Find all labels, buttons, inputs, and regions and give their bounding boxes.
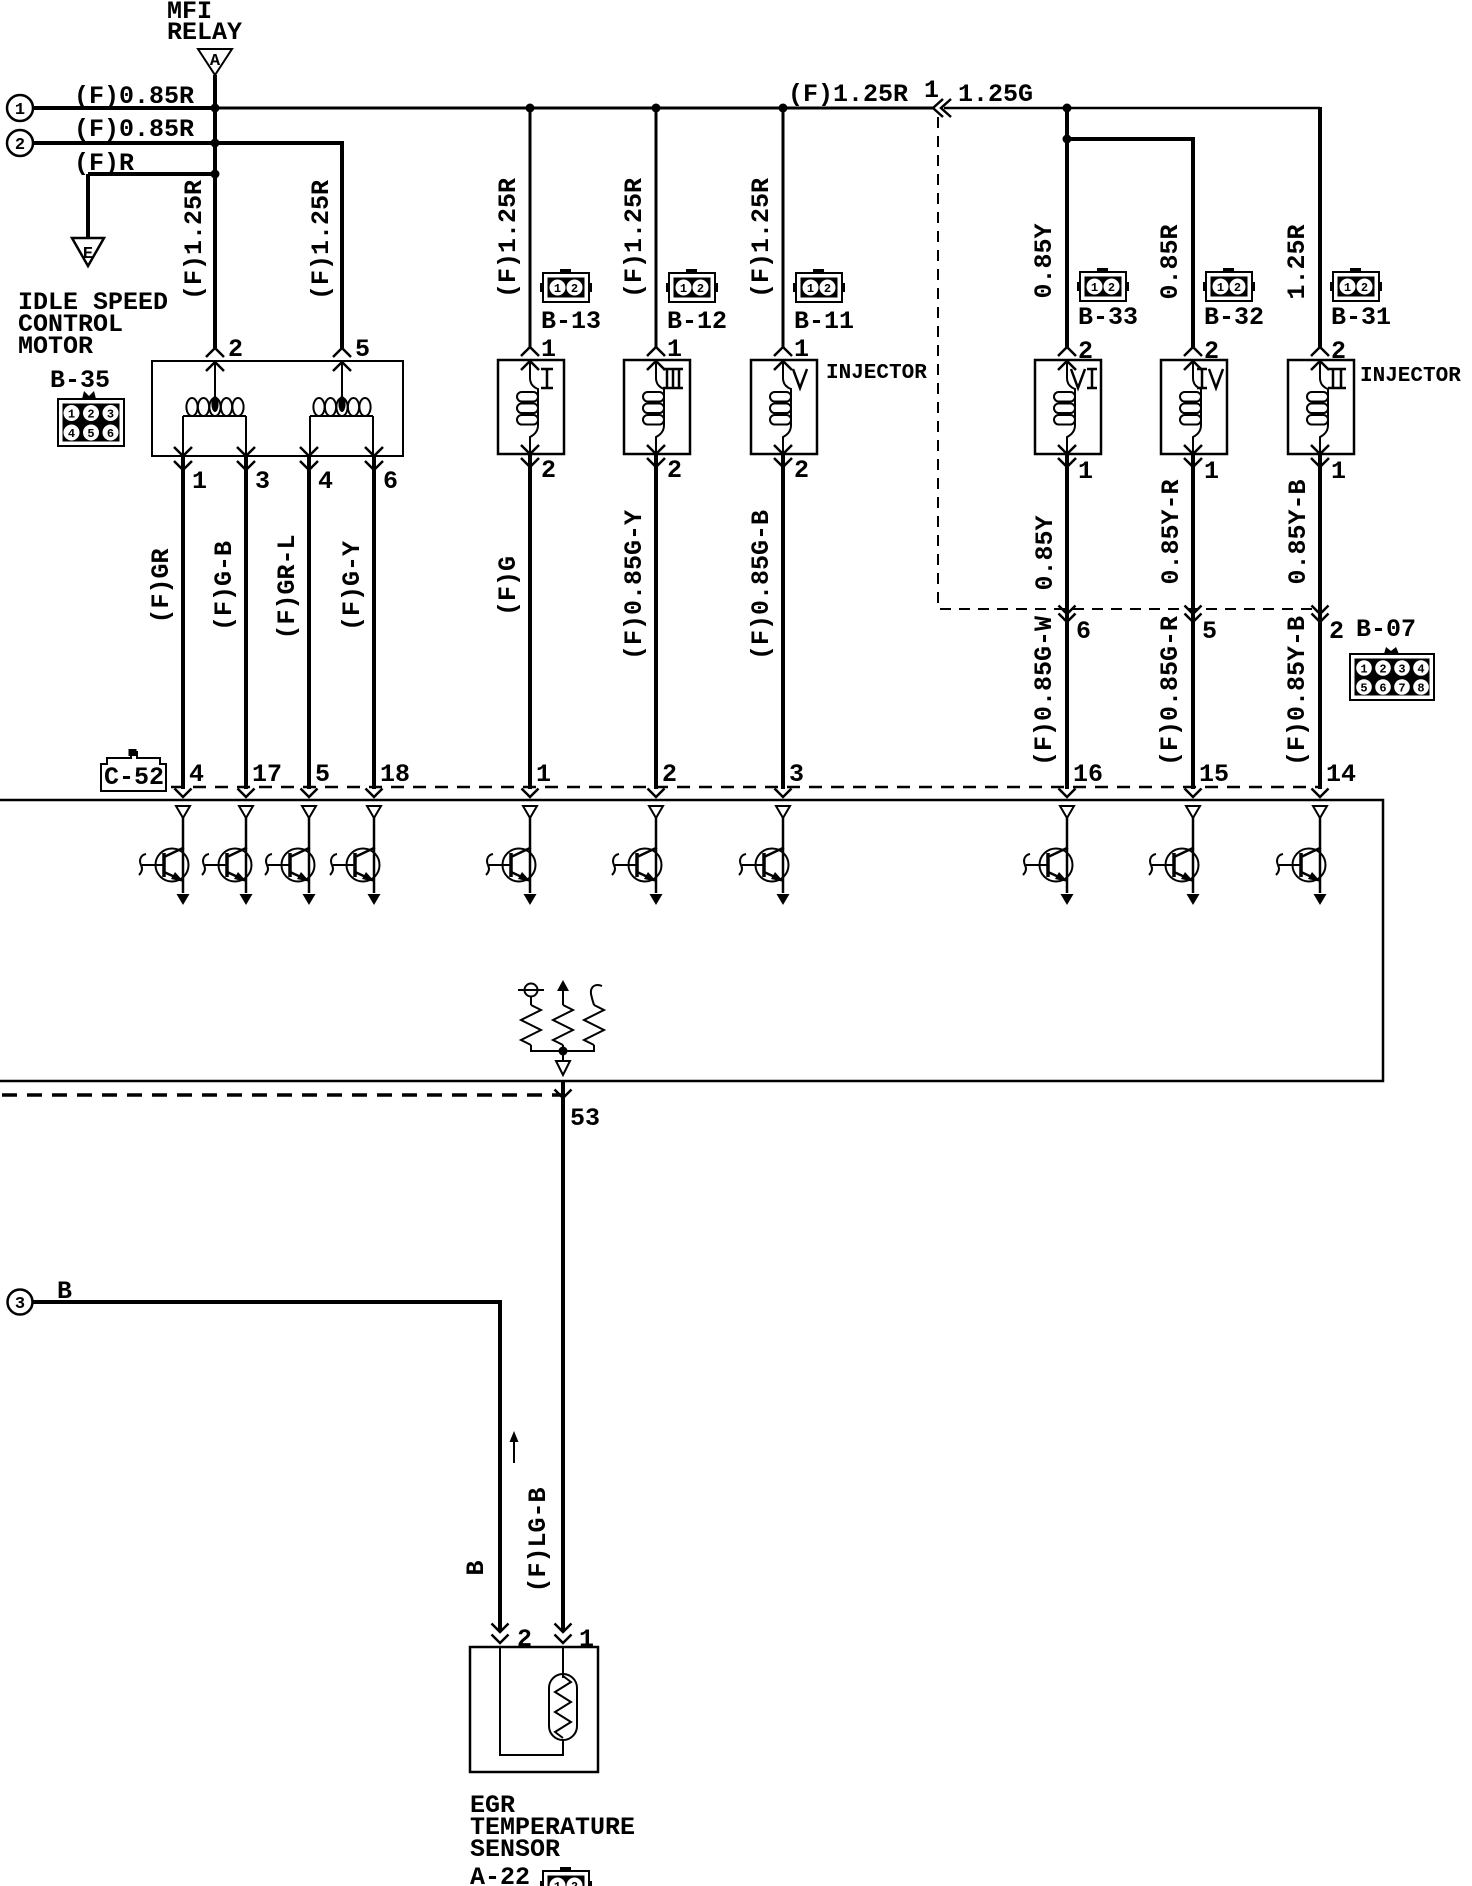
svg-text:0.85R: 0.85R <box>1156 224 1185 299</box>
wire: injector I feed drop <box>529 108 532 347</box>
svg-text:B-13: B-13 <box>541 307 601 336</box>
ECU pin 14 entry arrow <box>1312 789 1329 798</box>
transistor: ECU driver pin 1 <box>486 806 537 905</box>
svg-text:4: 4 <box>189 760 204 789</box>
svg-text:5: 5 <box>355 335 370 364</box>
svg-text:2: 2 <box>517 1625 532 1654</box>
connector icon: B-31 2-pin <box>1330 268 1382 301</box>
svg-text:2: 2 <box>1331 337 1346 366</box>
svg-text:14: 14 <box>1326 760 1356 789</box>
wire: EGR internal pin 2 <box>500 1647 563 1755</box>
svg-text:B-32: B-32 <box>1204 303 1264 332</box>
svg-text:SENSOR: SENSOR <box>470 1835 560 1864</box>
label: injector III numeral <box>663 369 683 388</box>
node: circled terminal 1 <box>7 95 33 121</box>
label: injector VI numeral <box>1071 369 1097 388</box>
svg-text:(F)1.25R: (F)1.25R <box>788 80 908 109</box>
node: junction relay/line1 <box>211 104 220 113</box>
wire: dashed harness boundary from joint 1 to B-07 row <box>938 117 1320 609</box>
svg-text:(F)GR-L: (F)GR-L <box>273 534 302 639</box>
connector icon: B-12 2-pin <box>666 269 718 302</box>
svg-text:1: 1 <box>1331 457 1346 486</box>
svg-text:(F)1.25R: (F)1.25R <box>494 178 523 298</box>
ECU pin 5 entry arrow <box>301 789 318 798</box>
wire: EGR internal pin 1 <box>562 1647 564 1678</box>
transistor: ECU driver pin 15 <box>1149 806 1200 905</box>
wire: dashed ECU connector row <box>171 786 1320 789</box>
svg-text:2: 2 <box>87 408 94 422</box>
svg-text:17: 17 <box>252 760 282 789</box>
svg-text:INJECTOR: INJECTOR <box>826 362 927 385</box>
svg-text:15: 15 <box>1199 760 1229 789</box>
svg-text:B-07: B-07 <box>1356 615 1416 644</box>
svg-text:18: 18 <box>380 760 410 789</box>
wire: (F)R ground lead <box>88 172 215 176</box>
wire: injector VI feed drop <box>1065 108 1069 347</box>
connector icon: B-33 2-pin <box>1077 268 1129 301</box>
svg-text:(F)0.85G-Y: (F)0.85G-Y <box>620 510 649 660</box>
component: injector V box <box>751 347 817 467</box>
svg-text:8: 8 <box>1417 682 1424 696</box>
svg-text:2: 2 <box>541 456 556 485</box>
node: circled terminal 3 <box>8 1290 33 1315</box>
connector: inline joint 1 chevrons <box>933 99 951 117</box>
pin 2 entry arrows motor <box>206 348 224 371</box>
component: ECU box <box>0 800 1383 1081</box>
label: injector IV numeral <box>1197 369 1223 388</box>
resistor: pull-up R2 with arrow tap <box>553 980 573 1051</box>
component: injector III box <box>624 347 690 467</box>
connector icon: B-11 2-pin <box>793 269 845 302</box>
wire: injector V to ECU <box>781 455 785 789</box>
svg-text:1.25G: 1.25G <box>958 80 1033 109</box>
svg-text:3: 3 <box>789 760 804 789</box>
svg-text:(F)1.25R: (F)1.25R <box>747 178 776 298</box>
pin 1 entry arrows EGR <box>555 1624 572 1633</box>
component: injector IV box <box>1161 347 1227 467</box>
svg-text:0.85Y-B: 0.85Y-B <box>1284 479 1313 584</box>
svg-text:(F)1.25R: (F)1.25R <box>307 180 336 300</box>
label: injector II numeral <box>1328 369 1346 388</box>
coil: motor winding at pin 5 <box>310 361 373 456</box>
coil: motor winding at pin 2 <box>183 361 246 456</box>
wire: ground drop to E <box>86 174 90 238</box>
svg-text:1: 1 <box>1078 457 1093 486</box>
label: injector I numeral <box>541 369 553 388</box>
svg-text:6: 6 <box>383 467 398 496</box>
svg-text:2: 2 <box>794 456 809 485</box>
pin 5 entry arrows motor <box>333 348 351 371</box>
node: circled terminal 2 <box>7 130 33 156</box>
component: injector VI box <box>1035 347 1101 467</box>
node: resistor junction <box>559 1047 568 1056</box>
transistor: ECU driver pin 17 <box>202 806 253 905</box>
svg-text:(F)G-B: (F)G-B <box>210 541 239 631</box>
ECU pin 15 entry arrow <box>1185 789 1202 798</box>
wire: injector III to ECU <box>654 455 658 789</box>
svg-text:4: 4 <box>68 427 75 441</box>
label: injector V numeral <box>793 369 807 388</box>
svg-text:1: 1 <box>541 335 556 364</box>
svg-text:C-52: C-52 <box>104 763 164 792</box>
ECU pin 53 exit arrow <box>555 1090 572 1099</box>
svg-text:2: 2 <box>667 456 682 485</box>
wire: pin 53 to EGR sensor <box>561 1082 565 1631</box>
svg-text:MOTOR: MOTOR <box>18 332 93 361</box>
node: junction line1/injector V <box>779 104 788 113</box>
ECU pin 2 entry arrow <box>648 789 665 798</box>
svg-text:6: 6 <box>1379 682 1386 696</box>
pin 1 exit arrows motor <box>174 447 192 470</box>
arrow: flow direction marker <box>510 1431 519 1463</box>
svg-text:RELAY: RELAY <box>167 18 242 47</box>
svg-text:(F)1.25R: (F)1.25R <box>180 180 209 300</box>
connector B-07 crossing pin 2 <box>1312 606 1329 615</box>
transistor: ECU driver pin 4 <box>139 806 190 905</box>
svg-text:4: 4 <box>1417 663 1424 677</box>
transistor: ECU driver pin 5 <box>265 806 316 905</box>
svg-text:1: 1 <box>924 76 939 105</box>
svg-text:3: 3 <box>255 467 270 496</box>
svg-text:0.85Y-R: 0.85Y-R <box>1157 479 1186 584</box>
node: junction 1.25G/injector VI <box>1063 104 1072 113</box>
wire: MFI relay drop to motor pin 2 <box>213 75 217 348</box>
svg-text:B-11: B-11 <box>794 307 854 336</box>
pin 3 exit arrows motor <box>237 447 255 470</box>
resistor: pull-up R1 with circle tap <box>518 984 563 1052</box>
svg-text:1: 1 <box>579 1625 594 1654</box>
transistor: ECU driver pin 14 <box>1276 806 1327 905</box>
ECU pin 1 entry arrow <box>522 789 539 798</box>
wire: injector II to ECU <box>1318 455 1322 789</box>
wire: motor pin 3 to ECU <box>244 457 248 789</box>
connector: MFI relay terminal A triangle <box>198 49 232 75</box>
ground: E triangle <box>72 238 104 266</box>
wire: 1.25G segment after inline connector 1 <box>944 107 1320 110</box>
node: junction line1/injector I <box>526 104 535 113</box>
wire: injector II drop from 1.25G line <box>1318 107 1322 347</box>
component: injector II box <box>1288 347 1354 467</box>
connector B-07 crossing pin 6 <box>1059 606 1076 615</box>
connector icon: B-35 6-pin <box>58 391 124 446</box>
svg-text:(F)LG-B: (F)LG-B <box>524 1487 553 1592</box>
svg-text:3: 3 <box>107 408 114 422</box>
svg-text:1: 1 <box>1204 457 1219 486</box>
svg-text:B-33: B-33 <box>1078 303 1138 332</box>
component: injector I box <box>498 347 564 467</box>
pin 2 entry arrows EGR <box>492 1624 509 1633</box>
node: junction VI/IV branch <box>1063 135 1072 144</box>
svg-text:5: 5 <box>1360 682 1367 696</box>
connector icon: B-32 2-pin <box>1203 268 1255 301</box>
svg-text:6: 6 <box>107 427 114 441</box>
connector: C-52 outline <box>101 749 166 792</box>
svg-text:1: 1 <box>667 335 682 364</box>
svg-text:B-31: B-31 <box>1331 303 1391 332</box>
svg-text:B-12: B-12 <box>667 307 727 336</box>
svg-text:(F)0.85G-W: (F)0.85G-W <box>1030 616 1059 766</box>
svg-text:E: E <box>83 245 93 264</box>
component: idle speed control motor box <box>152 361 403 456</box>
thermistor: EGR sensing element <box>549 1674 577 1740</box>
svg-text:(F)0.85G-R: (F)0.85G-R <box>1156 616 1185 766</box>
svg-text:(F)G-Y: (F)G-Y <box>338 541 367 631</box>
svg-text:2: 2 <box>662 760 677 789</box>
wire: junction to output triangle <box>562 1051 564 1061</box>
svg-text:0.85Y: 0.85Y <box>1031 515 1060 590</box>
wire: injector V feed drop <box>782 108 785 347</box>
wire: line 2 feed (F)0.85R to motor pin 5 <box>33 143 342 348</box>
ECU pin 4 entry arrow <box>175 789 192 798</box>
svg-text:4: 4 <box>318 467 333 496</box>
svg-text:1: 1 <box>68 408 75 422</box>
svg-text:2: 2 <box>1078 337 1093 366</box>
svg-text:(F)0.85R: (F)0.85R <box>74 115 194 144</box>
svg-text:5: 5 <box>315 760 330 789</box>
svg-text:B-35: B-35 <box>50 366 110 395</box>
wire: dashed bottom ECU connector row <box>2 1093 563 1097</box>
svg-text:5: 5 <box>87 427 94 441</box>
svg-text:5: 5 <box>1202 617 1217 646</box>
svg-text:53: 53 <box>570 1104 600 1133</box>
pin 4 exit arrows motor <box>300 447 318 470</box>
node: junction relay/line2 <box>211 139 220 148</box>
svg-text:1: 1 <box>794 335 809 364</box>
wire: terminal 3 to EGR sensor pin 2 <box>33 1302 500 1631</box>
svg-text:6: 6 <box>1076 617 1091 646</box>
svg-text:0.85Y: 0.85Y <box>1030 223 1059 298</box>
svg-text:(F)1.25R: (F)1.25R <box>620 178 649 298</box>
svg-text:2: 2 <box>15 136 25 155</box>
svg-text:B: B <box>462 1560 491 1575</box>
transistor: ECU driver pin 18 <box>330 806 381 905</box>
svg-text:2: 2 <box>1204 337 1219 366</box>
connector icon: B-13 2-pin <box>540 269 592 302</box>
wire: motor pin 4 to ECU <box>307 457 311 789</box>
svg-text:3: 3 <box>15 1295 25 1314</box>
svg-text:1: 1 <box>192 467 207 496</box>
wire: injector VI to ECU <box>1065 455 1069 789</box>
connector icon: B-07 8-pin <box>1350 647 1434 700</box>
svg-text:16: 16 <box>1073 760 1103 789</box>
svg-text:2: 2 <box>1379 663 1386 677</box>
ECU pin 17 entry arrow <box>238 789 255 798</box>
svg-text:(F)G: (F)G <box>494 556 523 616</box>
svg-text:A: A <box>210 52 221 71</box>
svg-text:7: 7 <box>1398 682 1405 696</box>
wire: motor pin 6 to ECU <box>372 457 376 789</box>
svg-text:1: 1 <box>15 101 25 120</box>
node: ECU output triangle pin 53 <box>556 1061 570 1075</box>
svg-text:2: 2 <box>1329 617 1344 646</box>
resistor: pull-up R3 with hook tap <box>563 985 604 1051</box>
transistor: ECU driver pin 2 <box>612 806 663 905</box>
wire: motor pin 1 to ECU <box>181 457 185 789</box>
wire: injector IV to ECU <box>1191 455 1195 789</box>
svg-text:1: 1 <box>536 760 551 789</box>
wire: injector I to ECU <box>528 455 532 789</box>
component: EGR temperature sensor box <box>470 1647 598 1772</box>
transistor: ECU driver pin 16 <box>1023 806 1074 905</box>
ECU pin 3 entry arrow <box>775 789 792 798</box>
svg-text:(F)GR: (F)GR <box>147 548 176 623</box>
connector B-07 crossing pin 5 <box>1185 606 1202 615</box>
wire: injector IV branch <box>1067 139 1193 347</box>
svg-text:1: 1 <box>1360 663 1367 677</box>
connector icon: A-22 2-pin <box>540 1867 592 1886</box>
svg-text:2: 2 <box>228 335 243 364</box>
node: junction relay/(F)R <box>211 170 220 179</box>
ECU pin 16 entry arrow <box>1059 789 1076 798</box>
svg-text:1.25R: 1.25R <box>1283 224 1312 299</box>
node: junction line1/injector III <box>652 104 661 113</box>
transistor: ECU driver pin 3 <box>739 806 790 905</box>
svg-text:(F)0.85G-B: (F)0.85G-B <box>747 510 776 660</box>
ECU pin 18 entry arrow <box>366 789 383 798</box>
svg-text:(F)0.85Y-B: (F)0.85Y-B <box>1283 616 1312 766</box>
wire: injector III feed drop <box>655 108 658 347</box>
svg-text:(F)0.85R: (F)0.85R <box>74 82 194 111</box>
wire: line 1 feed (F)0.85R / (F)1.25R <box>33 106 215 110</box>
svg-text:(F)R: (F)R <box>74 149 134 178</box>
svg-text:3: 3 <box>1398 663 1405 677</box>
pin 6 exit arrows motor <box>365 447 383 470</box>
svg-text:INJECTOR: INJECTOR <box>1360 365 1461 388</box>
svg-text:A-22: A-22 <box>470 1863 530 1886</box>
